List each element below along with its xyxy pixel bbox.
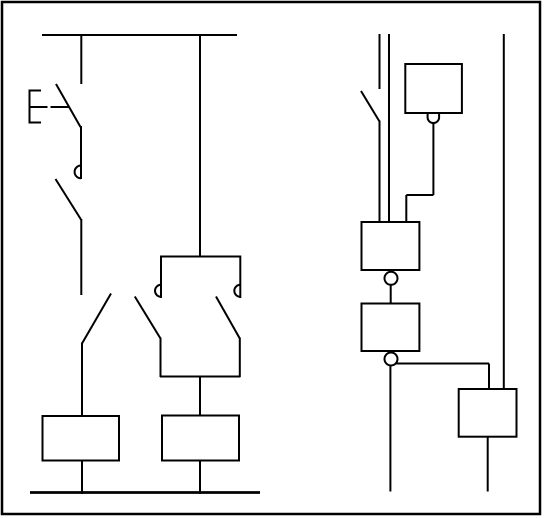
- wire box D to bus: [199, 461, 201, 495]
- box B2 device: [362, 304, 420, 352]
- pushbutton actuator (E bracket): [30, 91, 42, 123]
- contactor top bar: [160, 256, 240, 258]
- contact hook left: [155, 285, 161, 297]
- right upper wire left of pair: [379, 34, 381, 89]
- box C coil: [43, 416, 120, 461]
- box B1 device: [362, 222, 420, 270]
- circle node 2: [385, 353, 398, 366]
- contactor bottom bar: [160, 376, 240, 378]
- jog wire vertical: [405, 195, 407, 222]
- wire drop center: [199, 35, 201, 257]
- mechanical link (dashed): [30, 106, 48, 108]
- contactor left leg: [160, 256, 162, 299]
- wire below S4: [379, 121, 381, 223]
- contactor right lower leg: [239, 338, 241, 378]
- branch wire vertical: [488, 364, 490, 390]
- contact hook right: [234, 285, 240, 297]
- wire from socket: [432, 124, 434, 196]
- wire below S1: [80, 126, 82, 179]
- wire drop to pushbutton: [80, 35, 82, 84]
- circle node 1: [385, 272, 398, 285]
- branch wire horizontal: [396, 363, 490, 365]
- wire circle1 to box B2: [390, 285, 392, 304]
- wire below box E: [487, 437, 489, 492]
- box E device: [459, 389, 517, 437]
- wire below circle 2: [389, 366, 391, 492]
- box A device: [405, 64, 462, 113]
- wire bar to box D: [199, 377, 201, 417]
- far right wire: [503, 34, 505, 389]
- wire below S2: [80, 219, 82, 295]
- bottom bus L2: [30, 491, 260, 494]
- right wire pair right: [388, 34, 390, 222]
- top bus L1: [42, 34, 237, 36]
- box D coil: [162, 416, 239, 461]
- wire box C to bus: [81, 461, 83, 495]
- contactor left lower leg: [160, 338, 162, 378]
- contactor right leg: [239, 256, 241, 299]
- jog wire horizontal: [406, 194, 433, 196]
- pushbutton contact S1 blade: [56, 84, 81, 127]
- contactor left blade: [135, 297, 161, 339]
- wire below S3: [81, 343, 83, 417]
- contact hook on S2: [75, 166, 81, 179]
- socket cup below box A: [428, 113, 440, 123]
- switch S3 blade: [82, 294, 111, 344]
- switch S4 blade: [361, 91, 380, 122]
- switch S2 blade: [56, 179, 82, 220]
- contactor right blade: [216, 297, 240, 339]
